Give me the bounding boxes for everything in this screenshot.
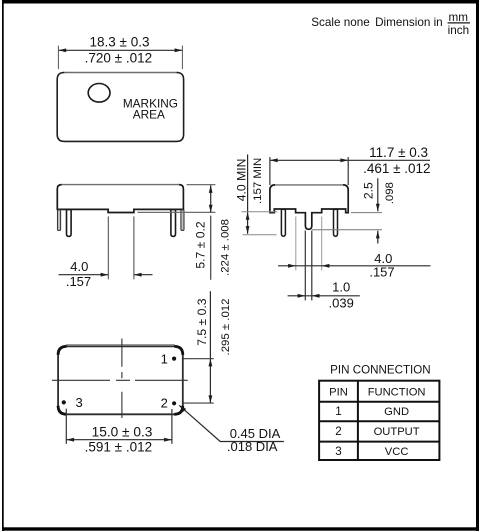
- svg-text:3: 3: [335, 445, 341, 458]
- side view 4.0 dim arrows: [59, 273, 153, 277]
- 2.5 dim arrows: [376, 178, 380, 243]
- bottom view horizontal centerline: [52, 379, 188, 381]
- 11.7 extension lines: [270, 157, 348, 185]
- 7.5 dim extension lines: [177, 359, 214, 403]
- svg-text:mm: mm: [448, 11, 467, 24]
- side view 4.0 extension lines: [108, 216, 134, 279]
- 5.7 dim extension lines: [138, 185, 216, 213]
- 4.0 MIN extension lines: [242, 212, 278, 235]
- end view 4.0 extension lines: [296, 217, 322, 271]
- side view front-right lead: [171, 210, 176, 237]
- end view body: [270, 185, 348, 229]
- svg-text:.224 ± .008: .224 ± .008: [219, 219, 231, 276]
- marking area label: [123, 96, 178, 121]
- svg-text:4.0: 4.0: [70, 259, 88, 274]
- 5.7 dim line: [209, 185, 213, 212]
- pin connection table grid: [319, 381, 439, 460]
- svg-text:inch: inch: [448, 24, 469, 37]
- end view right lead: [334, 209, 338, 236]
- svg-text:.039: .039: [329, 296, 354, 311]
- svg-text:.295 ± .012: .295 ± .012: [220, 299, 232, 356]
- pin 1 dot: [172, 357, 176, 361]
- 15.0 extension lines: [66, 409, 172, 444]
- side view back-left lead: [58, 210, 61, 231]
- 5.7 fraction bar: [210, 216, 212, 280]
- side view back-right lead: [181, 210, 184, 231]
- side view front-left lead: [67, 210, 72, 237]
- pin 3 dot: [62, 400, 66, 404]
- svg-text:.591 ± .012: .591 ± .012: [85, 440, 152, 455]
- svg-text:1.0: 1.0: [332, 280, 350, 295]
- svg-text:VCC: VCC: [385, 446, 409, 458]
- svg-text:FUNCTION: FUNCTION: [368, 386, 426, 398]
- 15.0 dim line: [66, 438, 172, 442]
- svg-text:2: 2: [335, 425, 341, 438]
- top view marking circle: [88, 84, 110, 103]
- svg-text:Scale none: Scale none: [311, 16, 369, 29]
- svg-text:PIN: PIN: [329, 386, 348, 398]
- svg-text:GND: GND: [384, 406, 409, 418]
- svg-text:4.0 MIN: 4.0 MIN: [235, 159, 249, 202]
- svg-text:2: 2: [161, 396, 168, 411]
- svg-text:5.7 ± 0.2: 5.7 ± 0.2: [194, 221, 208, 269]
- pin 2 dot: [172, 401, 176, 405]
- svg-text:.098: .098: [384, 182, 396, 204]
- svg-text:OUTPUT: OUTPUT: [374, 426, 420, 438]
- svg-text:AREA: AREA: [133, 108, 165, 122]
- svg-text:18.3 ± 0.3: 18.3 ± 0.3: [90, 35, 150, 50]
- svg-text:.461 ± .012: .461 ± .012: [363, 161, 430, 176]
- 1.0 extension lines: [305, 231, 312, 301]
- top view body: [57, 73, 183, 142]
- svg-text:3: 3: [75, 395, 82, 410]
- bottom view body: [58, 346, 183, 414]
- svg-text:Dimension in: Dimension in: [375, 16, 443, 29]
- svg-text:.157 MIN: .157 MIN: [252, 158, 264, 204]
- svg-text:1: 1: [335, 405, 341, 418]
- svg-text:1: 1: [161, 351, 168, 366]
- 4.0 MIN dim line: [246, 154, 250, 233]
- svg-text:.018 DIA: .018 DIA: [227, 439, 278, 454]
- svg-text:7.5 ± 0.3: 7.5 ± 0.3: [195, 298, 209, 346]
- svg-text:2.5: 2.5: [361, 182, 375, 199]
- 2.5 extension lines: [312, 213, 382, 230]
- 11.7 dim line: [270, 158, 430, 162]
- 1.0 dim line: [288, 294, 360, 298]
- 0.45 leader: [179, 405, 284, 441]
- top view dim line 18.3: [58, 48, 182, 52]
- svg-text:.157: .157: [369, 265, 394, 280]
- svg-text:.720 ± .012: .720 ± .012: [85, 51, 152, 66]
- svg-text:PIN CONNECTION: PIN CONNECTION: [330, 363, 430, 376]
- svg-text:11.7 ± 0.3: 11.7 ± 0.3: [369, 145, 428, 160]
- svg-text:15.0 ± 0.3: 15.0 ± 0.3: [92, 425, 153, 440]
- end view 4.0 dim line: [278, 264, 430, 268]
- top view extension lines: [58, 46, 182, 69]
- side view body: [57, 185, 183, 213]
- 7.5 dim line: [209, 291, 213, 403]
- svg-text:.157: .157: [66, 274, 91, 289]
- end view left lead: [281, 209, 285, 236]
- bottom view vertical centerline: [121, 339, 123, 419]
- mm/inch fraction: [448, 11, 470, 37]
